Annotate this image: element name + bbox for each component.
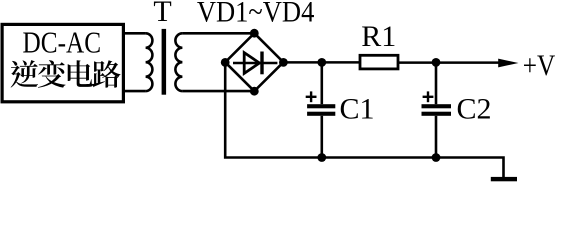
svg-text:R1: R1 bbox=[361, 20, 396, 53]
label "DC-AC" bbox=[23, 25, 102, 60]
node: C2 top junction dot bbox=[432, 58, 441, 67]
wire: R1 to output arrow bbox=[398, 61, 500, 64]
svg-text:DC-AC: DC-AC bbox=[23, 25, 102, 60]
wire: negative rail C2 to ground drop bbox=[436, 158, 504, 178]
C1 polarity plus sign bbox=[306, 91, 317, 102]
wire: negative rail C1 to C2 bbox=[322, 156, 436, 159]
node: bridge left vertex junction dot bbox=[221, 58, 230, 67]
wire: secondary top to bridge top vertex bbox=[182, 32, 254, 35]
bridge rectifier: internal diode symbol bbox=[233, 52, 277, 75]
label T bbox=[153, 0, 171, 28]
svg-text:VD1~VD4: VD1~VD4 bbox=[197, 0, 315, 29]
label VD1~VD4 bbox=[197, 0, 315, 29]
svg-text:T: T bbox=[153, 0, 171, 28]
transformer T: secondary winding bbox=[175, 33, 182, 91]
svg-text:C2: C2 bbox=[457, 93, 492, 126]
wire: bridge left vertex down to negative rail bbox=[225, 62, 322, 157]
capacitor C2 bbox=[422, 62, 452, 157]
svg-text:+V: +V bbox=[523, 49, 556, 82]
transformer T: core bar bbox=[162, 29, 167, 95]
node: bridge top vertex junction dot bbox=[250, 29, 259, 38]
transformer T: primary winding bbox=[146, 33, 153, 91]
bridge rectifier VD1~VD4: diamond outline bbox=[225, 33, 283, 91]
label R1 bbox=[361, 20, 396, 53]
node: C2 bottom junction dot bbox=[432, 153, 441, 162]
label C1 bbox=[340, 93, 375, 126]
node: C1 top junction dot bbox=[317, 58, 326, 67]
wire: top rail from bridge right vertex to R1 bbox=[283, 61, 360, 64]
resistor R1 bbox=[360, 55, 398, 69]
label C2 bbox=[457, 93, 492, 126]
output arrow head bbox=[498, 59, 518, 68]
node: bridge right vertex junction dot bbox=[279, 58, 288, 67]
C2 polarity plus sign bbox=[423, 91, 434, 102]
wire: box to transformer primary (bottom) bbox=[125, 90, 146, 93]
label +V bbox=[523, 49, 556, 82]
node: bridge bottom vertex junction dot bbox=[250, 87, 259, 96]
svg-text:C1: C1 bbox=[340, 93, 375, 126]
wire: box to transformer primary (top) bbox=[125, 32, 146, 35]
capacitor C1 bbox=[307, 62, 335, 157]
wire: secondary bottom to bridge bottom vertex bbox=[182, 90, 254, 93]
block: DC-AC inverter circuit box bbox=[2, 24, 123, 101]
label "逆变电路" (inverter circuit) bbox=[11, 60, 121, 88]
node: C1 bottom junction dot bbox=[317, 153, 326, 162]
ground symbol bbox=[491, 177, 517, 181]
